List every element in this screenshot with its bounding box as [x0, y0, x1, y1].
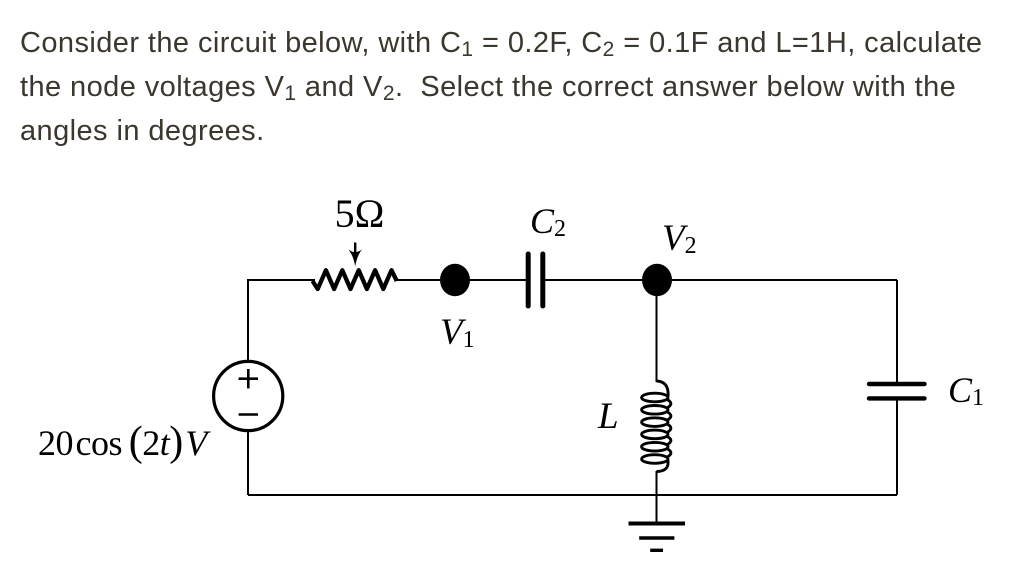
- wire left: source bottom to bottom-left corner: [247, 431, 249, 495]
- wire: inductor bottom through bottom wire to ground: [656, 471, 658, 522]
- question text: [20, 21, 1024, 153]
- wire: node V2 down to inductor top: [656, 280, 658, 382]
- wire top: resistor to C2 left plate: [396, 279, 528, 281]
- node V1: [440, 264, 470, 297]
- wire top: source to resistor: [248, 280, 315, 362]
- label C1: [948, 369, 984, 411]
- wire top: C2 right plate to right corner: [543, 279, 897, 281]
- inductor L coil: [642, 381, 671, 472]
- ground: [629, 524, 686, 551]
- resistor R 5ohm zigzag: [313, 270, 397, 289]
- plus sign: [239, 369, 258, 388]
- wire bottom: [248, 494, 897, 496]
- label 20cos(2t)V: [38, 422, 207, 463]
- label C2: [530, 200, 566, 242]
- svg-text:5Ω: 5Ω: [335, 191, 385, 236]
- wire right: top corner down to C1 top plate: [896, 280, 898, 382]
- capacitor C2 plates: [528, 254, 543, 306]
- arrow above resistor: [348, 243, 362, 267]
- label L: [598, 395, 619, 438]
- minus sign: [239, 413, 258, 416]
- voltage source circle: [214, 361, 283, 430]
- wire right: C1 bottom plate to bottom corner: [896, 400, 898, 495]
- node V2: [642, 264, 672, 297]
- capacitor C1 plates: [869, 384, 925, 398]
- label V2: [662, 217, 697, 260]
- label V1: [440, 311, 475, 354]
